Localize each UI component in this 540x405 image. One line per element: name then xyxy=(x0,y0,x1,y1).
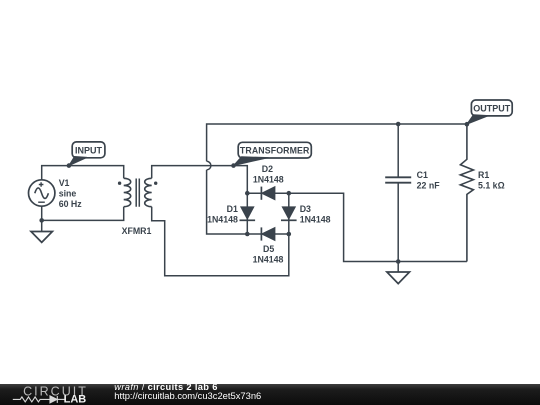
svg-text:OUTPUT: OUTPUT xyxy=(473,104,511,114)
svg-text:http://circuitlab.com/cu3c2et5: http://circuitlab.com/cu3c2et5x73n6 xyxy=(114,390,261,401)
diode D1 xyxy=(240,207,256,220)
primary polarity dot xyxy=(118,182,121,185)
wire bridge top-right to ground rail xyxy=(289,193,467,261)
svg-text:22 nF: 22 nF xyxy=(417,180,441,190)
primary coil xyxy=(124,178,131,206)
svg-text:1N4148: 1N4148 xyxy=(300,215,331,225)
diode bridge left edge wire xyxy=(246,193,248,234)
svg-text:1N4148: 1N4148 xyxy=(253,175,284,185)
secondary polarity dot xyxy=(154,182,157,185)
label C1 22 nF xyxy=(417,170,441,191)
voltage source V1 xyxy=(29,180,55,206)
svg-text:LAB: LAB xyxy=(64,393,87,405)
wire secondary top to bridge top-left xyxy=(152,166,248,194)
svg-text:D5: D5 xyxy=(263,244,274,254)
wire ground node to primary bottom xyxy=(42,207,124,221)
node bridge top-right xyxy=(287,191,292,196)
node C1 bottom xyxy=(396,259,401,264)
label D5 1N4148 xyxy=(253,244,284,265)
svg-text:C1: C1 xyxy=(417,170,428,180)
label V1 sine 60 Hz xyxy=(59,178,83,209)
node junction at V1 ground xyxy=(39,218,44,223)
node bridge top-left xyxy=(245,191,250,196)
ground symbol left xyxy=(31,220,52,242)
svg-text:60 Hz: 60 Hz xyxy=(59,199,83,209)
TRANSFORMER flag callout xyxy=(234,142,312,165)
wire hop over horizontal xyxy=(207,161,211,170)
diode bridge top edge wire xyxy=(247,192,288,194)
label D3 1N4148 xyxy=(300,204,331,225)
label D1 1N4148 xyxy=(207,204,238,225)
secondary coil xyxy=(145,178,152,206)
core lines xyxy=(136,179,139,207)
capacitor C1 xyxy=(385,124,411,262)
node bridge bottom-right xyxy=(287,232,292,237)
svg-text:XFMR1: XFMR1 xyxy=(122,226,152,236)
node TRANSFORMER anchor xyxy=(231,163,236,168)
logo wire resistor+diode glyph xyxy=(13,396,66,403)
transformer XFMR1 xyxy=(118,178,157,206)
wire bridge bottom-left to top rail with hop xyxy=(207,124,467,234)
svg-text:D1: D1 xyxy=(227,204,238,214)
svg-text:5.1 kΩ: 5.1 kΩ xyxy=(478,180,505,190)
svg-text:V1: V1 xyxy=(59,178,70,188)
label D2 1N4148 xyxy=(253,164,284,185)
wire V1 top to transformer primary top xyxy=(42,166,124,180)
svg-text:1N4148: 1N4148 xyxy=(207,215,238,225)
diode D3 xyxy=(281,207,297,220)
wire secondary bottom to bridge bottom-right xyxy=(152,207,289,276)
diode bridge bottom edge wire xyxy=(247,233,288,235)
OUTPUT flag callout xyxy=(465,100,513,126)
svg-text:INPUT: INPUT xyxy=(75,146,103,156)
svg-text:D3: D3 xyxy=(300,204,311,214)
svg-text:D2: D2 xyxy=(262,164,273,174)
diode bridge right edge wire xyxy=(288,193,290,234)
resistor R1 xyxy=(460,124,473,262)
wire V1 bottom to ground node xyxy=(41,206,43,220)
svg-text:R1: R1 xyxy=(478,170,489,180)
svg-text:sine: sine xyxy=(59,189,77,199)
label R1 5.1 kOhm xyxy=(478,170,505,191)
svg-text:TRANSFORMER: TRANSFORMER xyxy=(240,146,310,156)
INPUT flag callout xyxy=(67,142,105,168)
node C1 top xyxy=(396,122,401,127)
svg-text:1N4148: 1N4148 xyxy=(253,255,284,265)
diode D5 xyxy=(261,227,275,240)
node bridge bottom-left xyxy=(245,232,250,237)
ground symbol right xyxy=(387,262,410,284)
diode D2 xyxy=(261,187,275,200)
